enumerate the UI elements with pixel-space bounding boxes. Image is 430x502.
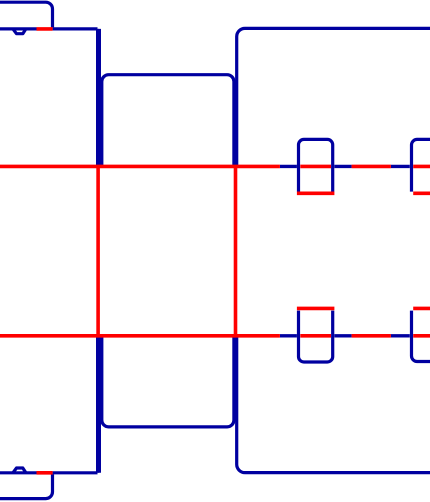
thumb notch bottom <box>13 468 26 473</box>
bottom lock slot 2 <box>413 307 430 311</box>
top crease blue segment c <box>391 165 410 168</box>
bottom lock tab 1 outline <box>299 311 333 362</box>
top-right big flap outline <box>237 28 430 165</box>
bottom-right big flap outline <box>237 337 430 473</box>
top main crease segment 1 <box>0 165 280 169</box>
bottom tuck tab fold crease <box>37 471 53 475</box>
top tuck tab fold crease <box>37 27 53 31</box>
left vertical cut line V1 top <box>96 29 99 165</box>
left vertical cut line V2 bottom <box>98 337 101 473</box>
top lock tab 2 outline <box>412 139 430 191</box>
top lock slot 1 <box>297 192 335 196</box>
bottom main crease segment 3 <box>352 334 391 338</box>
top crease blue segment a <box>280 165 297 168</box>
top main crease segment 4 (inside tab 2) <box>413 165 430 169</box>
bottom tuck tab outline <box>0 474 53 498</box>
right panel fold crease vertical <box>234 168 238 334</box>
bottom lock slot 1 <box>297 307 335 311</box>
top main crease segment 2 (inside tab 1) <box>300 165 331 169</box>
top tuck tab outline <box>0 2 53 27</box>
bottom main crease segment 2 (inside tab 1) <box>300 334 331 338</box>
thumb notch top <box>13 29 26 34</box>
bottom main crease segment 1 <box>0 334 280 338</box>
top-left flap top edge cut (left segment) <box>0 27 37 30</box>
left vertical cut line V1 bottom <box>96 337 99 473</box>
bottom crease blue segment a <box>280 334 297 337</box>
bottom lock tab 2 outline <box>412 311 430 362</box>
top main crease segment 3 <box>352 165 391 169</box>
central bottom dust flap outline <box>102 337 234 427</box>
left vertical cut line V2 top <box>98 29 101 165</box>
top crease blue segment b <box>334 165 351 168</box>
top lock tab 1 outline <box>299 139 333 191</box>
bottom crease blue segment c <box>391 334 410 337</box>
top lock slot 2 <box>413 192 430 196</box>
bottom main crease segment 4 (inside tab 2) <box>413 334 430 338</box>
top-left flap top edge cut (right segment) <box>53 27 98 30</box>
central top dust flap outline <box>102 75 234 166</box>
left panel fold crease vertical <box>96 168 100 334</box>
bottom-left flap bottom edge cut (left segment) <box>0 471 37 474</box>
bottom crease blue segment b <box>334 334 351 337</box>
bottom-left flap bottom edge cut (right segment) <box>53 471 98 474</box>
